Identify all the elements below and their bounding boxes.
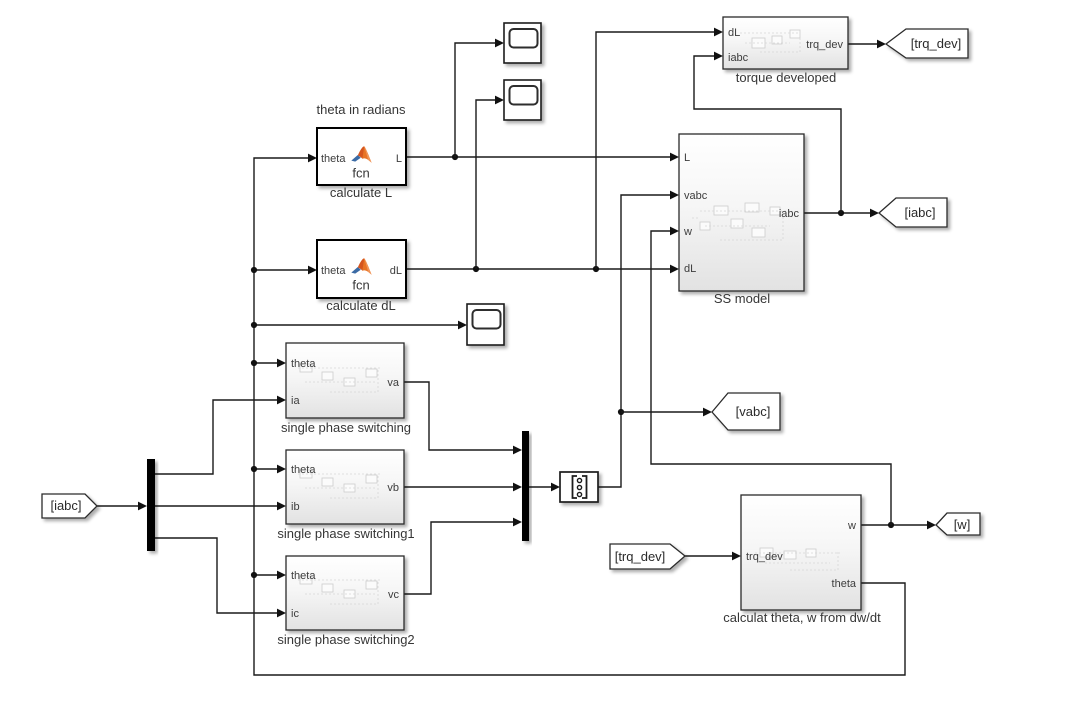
wire dL branch to scope2 bbox=[476, 96, 504, 269]
block torque developed (subsystem) bbox=[723, 17, 848, 69]
mux Mux (right black bar) bbox=[522, 431, 529, 541]
svg-text:L: L bbox=[396, 153, 402, 165]
block calculat theta, w from dw/dt (subsystem) bbox=[741, 495, 861, 610]
block single phase switching2 (subsystem) bbox=[286, 556, 404, 630]
svg-text:[w]: [w] bbox=[954, 517, 971, 532]
demux Demux (left black bar) bbox=[147, 459, 155, 551]
block calculate L (MATLAB Function fcn) bbox=[317, 128, 406, 185]
wire theta branch to calculate dL theta port bbox=[254, 266, 317, 275]
junction dL/torque-developed bbox=[593, 266, 599, 272]
svg-text:ic: ic bbox=[291, 608, 299, 620]
svg-text:[iabc]: [iabc] bbox=[50, 498, 81, 513]
svg-text:fcn: fcn bbox=[352, 166, 369, 181]
svg-text:[trq_dev]: [trq_dev] bbox=[615, 549, 666, 564]
block SS model (subsystem) bbox=[679, 134, 804, 291]
svg-text:[iabc]: [iabc] bbox=[904, 205, 935, 220]
from tag [iabc] bbox=[42, 494, 97, 518]
svg-text:theta: theta bbox=[291, 464, 316, 476]
junction dL/scope2 bbox=[473, 266, 479, 272]
svg-text:va: va bbox=[387, 377, 400, 389]
wire theta branch to single phase switching1 theta bbox=[254, 465, 286, 474]
svg-text:dL: dL bbox=[728, 27, 740, 39]
wire va to mux bbox=[404, 382, 522, 454]
svg-text:theta: theta bbox=[321, 265, 346, 277]
svg-text:w: w bbox=[847, 520, 856, 532]
svg-text:[vabc]: [vabc] bbox=[736, 404, 771, 419]
goto tag [trq_dev] bbox=[886, 29, 968, 58]
wire iabc-from to demux bbox=[97, 502, 147, 511]
scope Scope1 bbox=[504, 23, 541, 63]
svg-text:vabc: vabc bbox=[684, 190, 708, 202]
goto tag [vabc] bbox=[712, 393, 780, 430]
wire vabc branch to goto tag bbox=[621, 408, 712, 417]
svg-text:[trq_dev]: [trq_dev] bbox=[911, 36, 962, 51]
goto tag [iabc] bbox=[879, 198, 947, 227]
junction vabc bbox=[618, 409, 624, 415]
wire dL branch to torque developed dL port bbox=[596, 28, 723, 269]
svg-text:single phase switching1: single phase switching1 bbox=[277, 526, 414, 541]
wire vb to mux bbox=[404, 483, 522, 492]
junction theta/sps bbox=[251, 360, 257, 366]
block single phase switching1 (subsystem) bbox=[286, 450, 404, 524]
goto tag [w] bbox=[936, 513, 980, 535]
wire ic from demux to single phase switching2 bbox=[155, 538, 286, 617]
svg-text:theta in radians: theta in radians bbox=[317, 102, 406, 117]
svg-text:calculat theta, w from dw/dt: calculat theta, w from dw/dt bbox=[723, 610, 881, 625]
block single phase switching (subsystem) bbox=[286, 343, 404, 418]
svg-text:theta: theta bbox=[291, 570, 316, 582]
wire vabc from concatenate to SS model vabc port bbox=[598, 191, 679, 487]
svg-text:theta: theta bbox=[321, 153, 346, 165]
wire w branch to SS model w port bbox=[651, 227, 891, 525]
wire iabc from SS model to goto tag bbox=[804, 209, 879, 218]
svg-text:trq_dev: trq_dev bbox=[806, 39, 843, 51]
wire dL from calculate dL to SS model bbox=[406, 265, 679, 274]
svg-text:iabc: iabc bbox=[728, 52, 749, 64]
svg-text:w: w bbox=[683, 226, 692, 238]
svg-text:dL: dL bbox=[684, 263, 696, 275]
block calculate dL (MATLAB Function fcn) bbox=[317, 240, 406, 298]
svg-text:ia: ia bbox=[291, 395, 300, 407]
block vector concatenate [:] bbox=[560, 472, 598, 502]
wire trq_dev from torque developed to goto tag bbox=[848, 40, 886, 49]
wire ib from demux to single phase switching1 bbox=[155, 502, 286, 511]
svg-text:torque developed: torque developed bbox=[736, 70, 836, 85]
wire trq_dev from-tag to calculat theta block bbox=[685, 552, 741, 561]
svg-text:trq_dev: trq_dev bbox=[746, 551, 783, 563]
svg-text:fcn: fcn bbox=[352, 278, 369, 293]
junction theta/scope3 bbox=[251, 322, 257, 328]
wire L branch to scope1 bbox=[455, 39, 504, 157]
svg-text:dL: dL bbox=[390, 265, 402, 277]
svg-text:calculate L: calculate L bbox=[330, 185, 392, 200]
wire theta branch to scope3 bbox=[254, 321, 467, 330]
scope Scope3 bbox=[467, 304, 504, 345]
wire ia from demux to single phase switching bbox=[155, 396, 286, 474]
wire iabc branch to torque developed iabc port bbox=[694, 52, 841, 213]
svg-text:L: L bbox=[684, 152, 690, 164]
wire w from calculat theta to goto tag bbox=[861, 521, 936, 530]
junction iabc bbox=[838, 210, 844, 216]
svg-text:theta: theta bbox=[832, 578, 857, 590]
svg-text:vb: vb bbox=[387, 482, 399, 494]
junction theta/sps1 bbox=[251, 466, 257, 472]
svg-text:iabc: iabc bbox=[779, 208, 800, 220]
wire mux output to concatenate bbox=[529, 483, 560, 492]
wire L from calculate L to SS model bbox=[406, 153, 679, 162]
wire vc to mux bbox=[404, 518, 522, 594]
wire theta branch to calculate L theta port bbox=[308, 154, 317, 163]
svg-text:SS model: SS model bbox=[714, 291, 770, 306]
svg-text:single phase switching: single phase switching bbox=[281, 420, 411, 435]
svg-text:theta: theta bbox=[291, 358, 316, 370]
junction theta/sps2 bbox=[251, 572, 257, 578]
from tag [trq_dev] bbox=[610, 544, 685, 569]
svg-text:single phase switching2: single phase switching2 bbox=[277, 632, 414, 647]
junction theta/calculate-dL bbox=[251, 267, 257, 273]
junction L/scope1 bbox=[452, 154, 458, 160]
wire theta feedback main (from calculat theta output, bottom loop, left riser) bbox=[254, 158, 905, 675]
svg-text:vc: vc bbox=[388, 589, 400, 601]
junction w bbox=[888, 522, 894, 528]
svg-text:calculate dL: calculate dL bbox=[326, 298, 395, 313]
wire theta branch to single phase switching theta bbox=[254, 359, 286, 368]
svg-text:ib: ib bbox=[291, 501, 300, 513]
scope Scope2 bbox=[504, 80, 541, 120]
wire theta branch to single phase switching2 theta bbox=[254, 571, 286, 580]
